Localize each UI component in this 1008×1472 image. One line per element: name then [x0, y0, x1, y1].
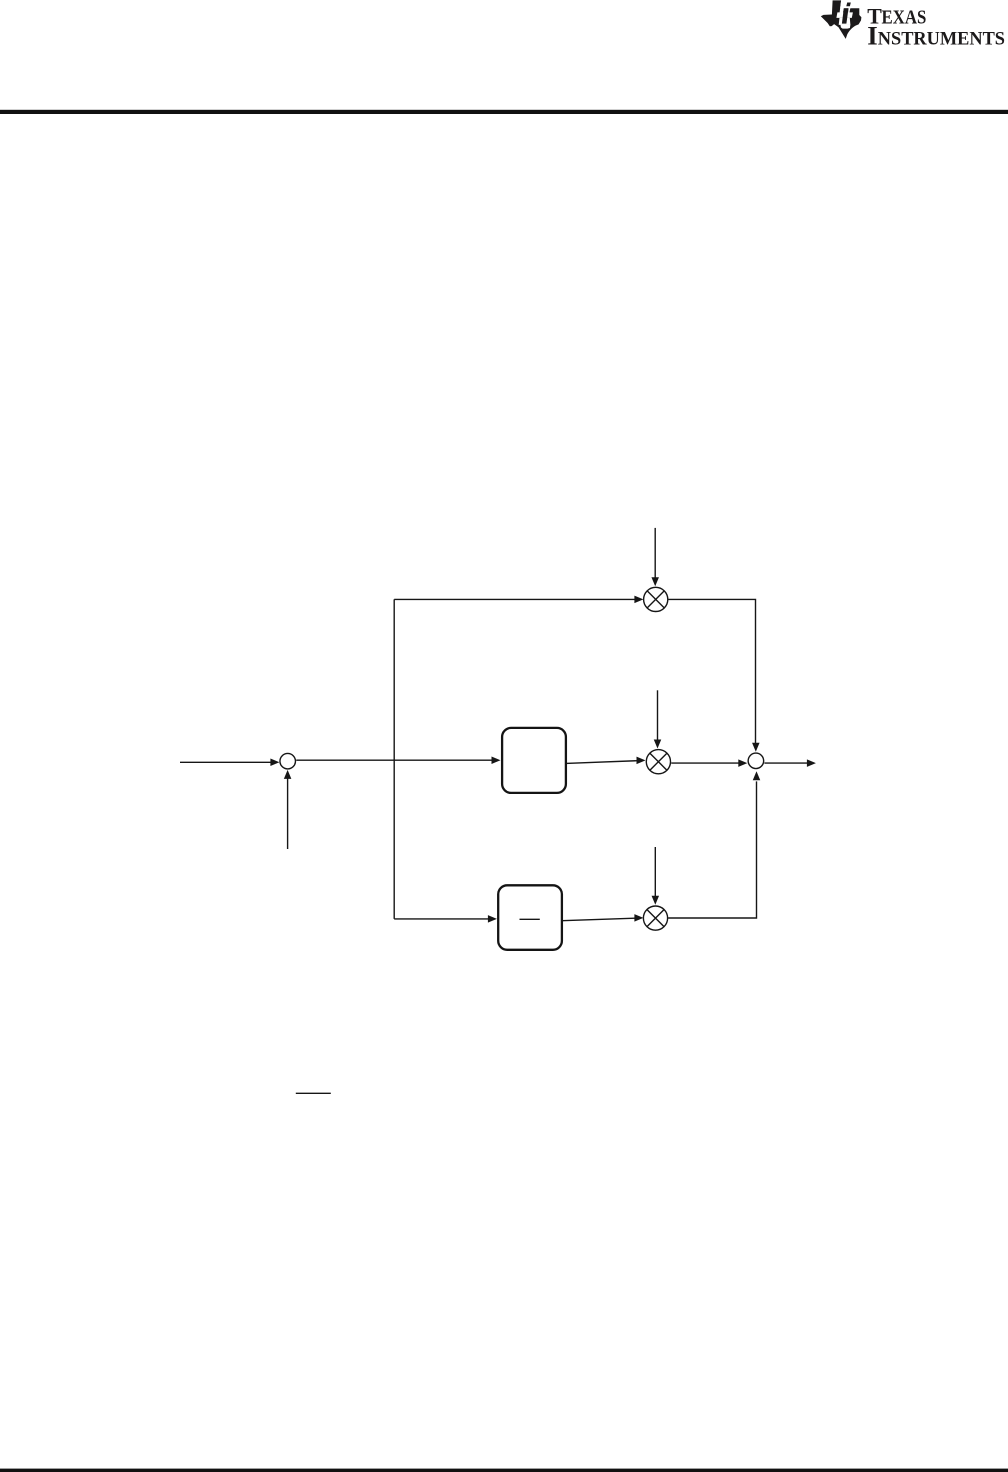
- multiplier M3: [643, 906, 667, 930]
- footer rule: [0, 1469, 1008, 1472]
- arrowhead output: [807, 759, 816, 767]
- block B2: [498, 885, 562, 950]
- fraction bar (equation remnant): [296, 1092, 331, 1094]
- summing junction S1: [280, 753, 296, 769]
- wire S1 to block B1: [296, 759, 492, 761]
- wire arrow down into M2: [657, 690, 659, 740]
- wire top branch to multiplier M1: [394, 598, 635, 600]
- arrowhead down into M1 top: [651, 577, 659, 586]
- wire bottom corner up into S2: [668, 781, 756, 918]
- block B1: [502, 728, 566, 793]
- multiplier M1: [644, 587, 668, 611]
- arrowhead into M1 left: [634, 596, 643, 604]
- wire B2 to M3: [562, 918, 635, 921]
- svg-text:EXAS: EXAS: [882, 6, 927, 28]
- wire bottom branch to block B2: [394, 918, 488, 920]
- arrowhead into M3 left: [634, 914, 643, 922]
- arrowhead down into S2 top: [752, 743, 760, 752]
- header rule: [0, 110, 1008, 114]
- wire B1 to M2: [566, 761, 637, 764]
- wire output: [764, 762, 807, 764]
- arrowhead up into S1 bottom: [284, 770, 292, 779]
- arrowhead into M2 left: [637, 757, 646, 765]
- arrowhead down into M2 top: [654, 740, 662, 749]
- wire input: [180, 761, 272, 763]
- arrowhead down into M3 top: [652, 896, 660, 905]
- TI logo wordmark TEXAS: [867, 4, 1005, 50]
- wire vertical branch: [393, 599, 395, 919]
- multiplier M2: [646, 750, 670, 774]
- TI logo Texas-state mark: [821, 0, 862, 39]
- wire M1 to right corner: [668, 599, 755, 743]
- wire M2 to summing junction S2: [671, 762, 739, 764]
- wire arrow down into M1: [654, 528, 656, 578]
- arrowhead into B1: [492, 756, 501, 764]
- wire arrow up into summing junction S1: [287, 779, 289, 850]
- arrowhead into S1 left: [270, 759, 279, 767]
- wire arrow down into M3: [654, 847, 656, 896]
- svg-text:NSTRUMENTS: NSTRUMENTS: [878, 28, 1005, 49]
- svg-text:I: I: [867, 20, 877, 50]
- arrowhead into B2: [488, 915, 497, 923]
- arrowhead into S2 left: [738, 759, 747, 767]
- arrowhead up into S2 bottom: [753, 771, 761, 780]
- summing junction S2: [748, 753, 764, 769]
- minus sign inside B2: [520, 918, 540, 920]
